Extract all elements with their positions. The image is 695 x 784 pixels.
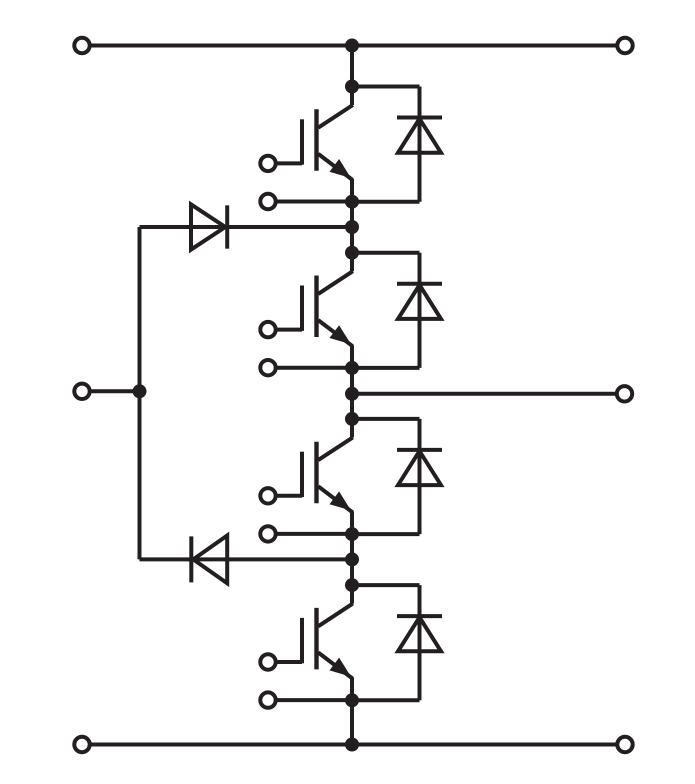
node Q1 collector junction xyxy=(345,80,359,94)
wire left clamp rail (vertical) xyxy=(138,227,142,559)
terminal P (top-left, open circle) xyxy=(74,38,89,53)
wire bus: Q2 emitter to Q3 collector xyxy=(350,368,354,419)
terminal Q3 auxiliary emitter (open circle) xyxy=(260,526,275,541)
transistor Q4 (IGBT) xyxy=(276,585,353,700)
node clamp rail / neutral junction xyxy=(133,384,147,398)
diode D5 (upper clamp, anode left) xyxy=(140,204,353,249)
node Q3 collector junction xyxy=(345,412,359,426)
node Q4 emitter junction xyxy=(345,693,359,707)
transistor Q3 (IGBT) xyxy=(276,419,353,534)
node Q1 emitter junction xyxy=(345,195,359,209)
node Q2 collector junction xyxy=(345,246,359,260)
wire AC output (mid-right) xyxy=(352,392,616,396)
wire Q2 auxiliary emitter lead xyxy=(276,366,352,370)
diode D6 (lower clamp, anode right) xyxy=(140,536,353,584)
diode D3 (antiparallel to Q3) xyxy=(352,419,442,534)
wire bottom DC- rail xyxy=(91,743,616,747)
node Q4 collector junction xyxy=(345,578,359,592)
node clamp D5 / bus junction xyxy=(345,220,359,234)
terminal top-right (open circle) xyxy=(617,38,632,53)
wire top DC+ rail xyxy=(91,44,616,48)
diode D1 (antiparallel to Q1) xyxy=(352,87,442,202)
terminal Q4 auxiliary emitter (open circle) xyxy=(260,692,275,707)
wire bus: top rail to Q1 collector xyxy=(350,46,354,87)
node top rail / bus junction xyxy=(345,39,359,53)
node AC output / bus junction xyxy=(345,387,359,401)
terminal bottom-right (open circle) xyxy=(617,737,632,752)
wire bus: Q1 emitter to Q2 collector xyxy=(350,202,354,253)
terminal Q3 gate (open circle) xyxy=(260,488,275,503)
wire neutral terminal to clamp rail xyxy=(91,389,140,393)
wire bus: Q3 emitter to Q4 collector xyxy=(350,534,354,585)
node Q3 emitter junction xyxy=(345,527,359,541)
wire Q4 auxiliary emitter lead xyxy=(276,698,352,702)
node Q2 emitter junction xyxy=(345,361,359,375)
node clamp D6 / bus junction xyxy=(345,552,359,566)
transistor Q1 (IGBT) xyxy=(276,87,353,202)
wire bus: Q4 emitter to bottom rail xyxy=(350,700,354,744)
diode D4 (antiparallel to Q4) xyxy=(352,585,442,700)
node bottom rail / bus junction xyxy=(345,738,359,752)
terminal Q1 gate (open circle) xyxy=(260,156,275,171)
terminal Q2 gate (open circle) xyxy=(260,322,275,337)
terminal AC output (mid-right, open circle) xyxy=(617,386,632,401)
wire Q1 auxiliary emitter lead xyxy=(276,200,352,204)
terminal Q2 auxiliary emitter (open circle) xyxy=(260,360,275,375)
transistor Q2 (IGBT) xyxy=(276,253,353,368)
terminal NP neutral (mid-left, open circle) xyxy=(74,384,89,399)
terminal N (bottom-left, open circle) xyxy=(74,737,89,752)
diode D2 (antiparallel to Q2) xyxy=(352,253,442,368)
wire Q3 auxiliary emitter lead xyxy=(276,532,352,536)
terminal Q4 gate (open circle) xyxy=(260,654,275,669)
terminal Q1 auxiliary emitter (open circle) xyxy=(260,194,275,209)
